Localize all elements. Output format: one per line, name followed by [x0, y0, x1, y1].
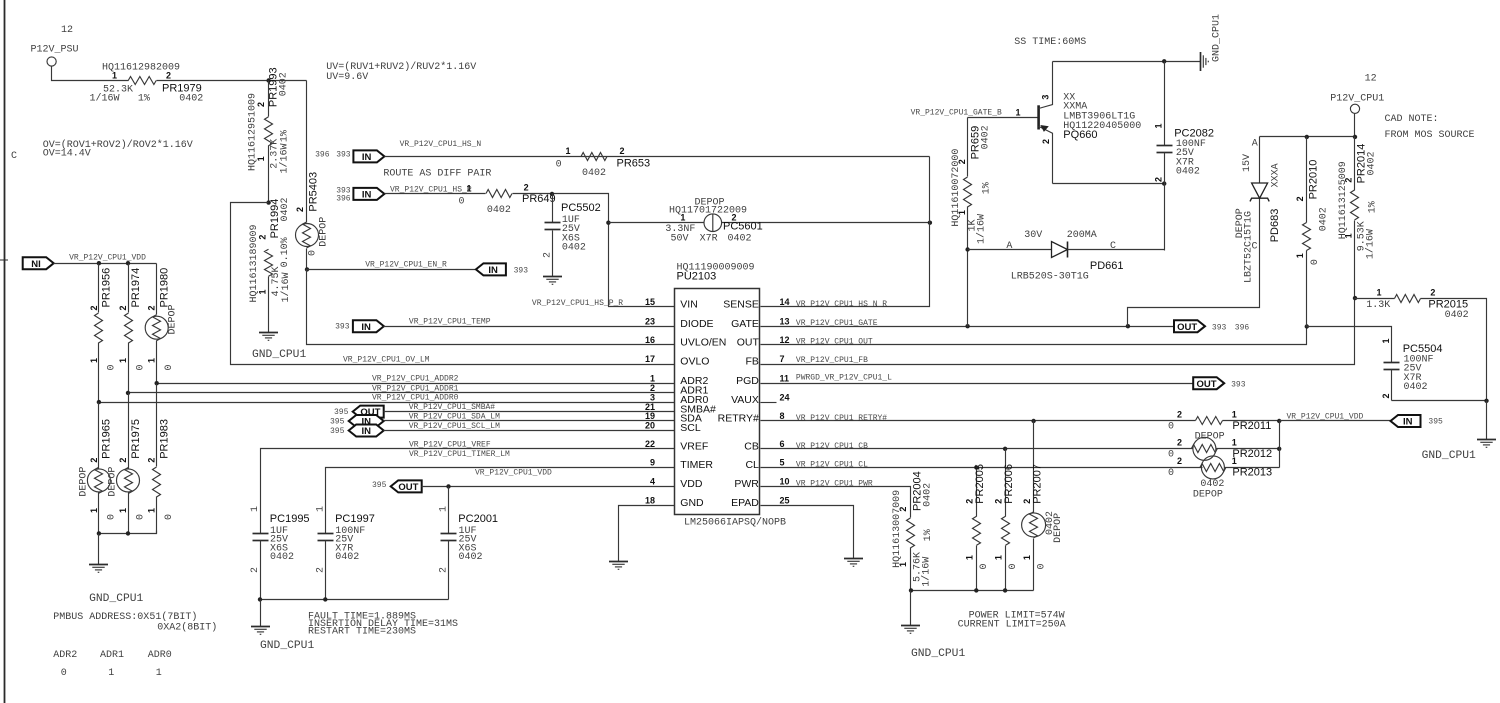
svg-text:1: 1: [439, 506, 450, 512]
svg-text:1/16W: 1/16W: [90, 92, 120, 104]
resistor PR659: [951, 118, 992, 250]
node FB/PR2014/PR2015 junction: [1353, 296, 1357, 300]
svg-text:VR_P12V_CPU1_OV_LM: VR_P12V_CPU1_OV_LM: [343, 356, 430, 365]
svg-text:9: 9: [650, 458, 655, 468]
wire GATE_B base wire: [911, 107, 1038, 117]
svg-text:396: 396: [1235, 324, 1250, 333]
resistor PR2004: [892, 471, 934, 590]
svg-text:1: 1: [89, 508, 99, 513]
svg-text:RESTART TIME=230MS: RESTART TIME=230MS: [308, 627, 416, 638]
svg-text:0: 0: [106, 514, 117, 520]
svg-text:GND_CPU1: GND_CPU1: [911, 648, 965, 660]
svg-text:DIODE: DIODE: [680, 318, 713, 330]
svg-text:1: 1: [1343, 233, 1353, 238]
svg-text:1: 1: [118, 358, 128, 363]
svg-text:PR1974: PR1974: [130, 268, 142, 308]
svg-text:4: 4: [650, 477, 655, 487]
svg-text:14: 14: [780, 297, 790, 307]
svg-text:DEPOP: DEPOP: [1193, 490, 1223, 501]
svg-text:VR_P12V_CPU1_GATE: VR_P12V_CPU1_GATE: [796, 319, 878, 328]
ground GND_CPU1 top right (rotated): [1201, 14, 1223, 71]
svg-text:1: 1: [256, 156, 266, 161]
svg-text:0: 0: [556, 160, 562, 171]
svg-text:XXXA: XXXA: [1270, 163, 1281, 187]
svg-text:396: 396: [336, 194, 351, 203]
svg-text:1: 1: [1232, 456, 1237, 466]
svg-text:PC5502: PC5502: [561, 202, 601, 214]
wire HS_P: [385, 183, 486, 207]
wire PC2001 riser: [448, 487, 450, 534]
svg-text:1: 1: [108, 668, 114, 679]
resistor PR653: [556, 146, 651, 179]
svg-text:HQ11613125009: HQ11613125009: [1338, 161, 1349, 239]
svg-text:PR2006: PR2006: [1003, 464, 1015, 504]
wire P12V_CPU1 rail: [1354, 114, 1356, 137]
svg-text:ADR1: ADR1: [100, 650, 124, 661]
svg-text:OUT: OUT: [737, 337, 760, 349]
svg-text:1: 1: [89, 358, 99, 363]
node P12V_CPU1 terminal: [1330, 74, 1384, 114]
svg-text:1: 1: [118, 508, 128, 513]
svg-text:2: 2: [89, 305, 99, 310]
svg-text:2: 2: [256, 102, 266, 107]
wire VDD to IN port: [1280, 412, 1391, 421]
wire PR rail bottom: [911, 590, 1034, 592]
svg-text:20: 20: [645, 421, 655, 431]
svg-text:PU2103: PU2103: [677, 271, 717, 283]
svg-text:2: 2: [439, 567, 450, 573]
svg-text:6: 6: [780, 439, 785, 449]
wire HS_P to VIN: [513, 194, 675, 307]
svg-text:1: 1: [147, 358, 157, 363]
wire ADR1 net: [129, 392, 675, 394]
wire SENSE riser: [761, 157, 930, 307]
svg-text:VR_P12V_CPU1_HS_P_R: VR_P12V_CPU1_HS_P_R: [532, 299, 623, 308]
svg-text:23: 23: [645, 316, 655, 326]
svg-text:0402: 0402: [459, 552, 483, 563]
text ADR table: [53, 650, 171, 679]
svg-text:395: 395: [372, 481, 387, 490]
svg-text:DEPOP: DEPOP: [319, 217, 330, 247]
node PC5504/PR2015 junction: [1484, 399, 1488, 403]
svg-text:2: 2: [1430, 288, 1435, 298]
svg-text:2: 2: [250, 567, 261, 573]
svg-text:VR_P12V_CPU1_OUT: VR_P12V_CPU1_OUT: [796, 337, 873, 346]
svg-text:VDD: VDD: [680, 478, 703, 490]
svg-text:PC2082: PC2082: [1174, 128, 1214, 140]
svg-text:0: 0: [61, 668, 67, 679]
svg-text:OV=14.4V: OV=14.4V: [43, 149, 91, 160]
text timing notes: [308, 612, 458, 638]
svg-text:2: 2: [965, 499, 975, 504]
svg-text:VR_P12V_CPU1_CB: VR_P12V_CPU1_CB: [796, 442, 868, 451]
svg-text:IN: IN: [361, 426, 371, 437]
svg-text:16: 16: [645, 335, 655, 345]
svg-text:1: 1: [566, 146, 571, 156]
svg-text:DEPOP: DEPOP: [168, 304, 179, 334]
svg-text:A: A: [1252, 139, 1258, 150]
svg-text:0402: 0402: [1318, 207, 1329, 231]
port IN (SDA): [330, 415, 384, 428]
node CB/PR2006 junction: [1003, 447, 1007, 451]
svg-text:PC5601: PC5601: [723, 221, 763, 233]
svg-text:GND_CPU1: GND_CPU1: [1422, 450, 1476, 462]
svg-text:GATE: GATE: [731, 318, 759, 330]
node PR659/PD661 junction: [965, 247, 969, 251]
svg-text:0: 0: [164, 364, 175, 370]
svg-text:1: 1: [1232, 437, 1237, 447]
svg-text:1: 1: [650, 373, 655, 383]
svg-text:GND_CPU1: GND_CPU1: [89, 593, 143, 605]
svg-text:ROUTE AS DIFF PAIR: ROUTE AS DIFF PAIR: [383, 169, 491, 180]
port IN (VDD right): [1391, 415, 1444, 428]
svg-text:VR_P12V_CPU1_TEMP: VR_P12V_CPU1_TEMP: [409, 318, 491, 327]
svg-text:0: 0: [308, 250, 319, 256]
resistor PR2007 (DEPOP): [1022, 421, 1064, 591]
svg-text:30V: 30V: [1024, 230, 1042, 241]
svg-text:VR_P12V_CPU1_SDA_LM: VR_P12V_CPU1_SDA_LM: [409, 413, 500, 422]
resistor PR2005: [965, 464, 991, 590]
wire VREF net: [261, 440, 675, 533]
svg-text:393: 393: [514, 267, 529, 276]
port IN (SCL): [330, 425, 384, 438]
svg-text:SENSE: SENSE: [723, 299, 759, 311]
svg-text:PC5504: PC5504: [1403, 343, 1443, 355]
svg-text:PR1965: PR1965: [101, 419, 113, 459]
svg-text:1: 1: [1381, 338, 1391, 343]
svg-text:0402: 0402: [1367, 151, 1378, 175]
svg-text:RETRY#: RETRY#: [718, 413, 759, 425]
svg-text:OUT: OUT: [1177, 322, 1197, 333]
svg-text:1/16W: 1/16W: [1365, 229, 1377, 259]
svg-text:ADR2: ADR2: [53, 650, 77, 661]
svg-text:CAD NOTE:: CAD NOTE:: [1385, 114, 1439, 125]
svg-text:0: 0: [164, 514, 175, 520]
svg-text:2: 2: [1295, 196, 1305, 201]
port NI: [23, 254, 146, 270]
ground GND_CPU1 caps: [251, 600, 314, 653]
svg-text:395: 395: [334, 408, 349, 417]
svg-text:11: 11: [780, 373, 790, 383]
wire PR2011-13 common riser: [1279, 421, 1281, 468]
svg-text:PD661: PD661: [1090, 260, 1124, 272]
svg-text:0: 0: [1168, 422, 1174, 433]
wire HS_N: [385, 140, 930, 157]
svg-text:FB: FB: [745, 356, 758, 368]
svg-text:PR1983: PR1983: [159, 419, 171, 459]
svg-text:UV=9.6V: UV=9.6V: [326, 72, 368, 83]
svg-text:1/16W: 1/16W: [975, 214, 987, 244]
svg-text:1.3K: 1.3K: [1366, 300, 1390, 311]
svg-text:PR2005: PR2005: [974, 464, 986, 504]
svg-text:0402: 0402: [279, 72, 290, 96]
svg-text:VR_P12V_CPU1_VDD: VR_P12V_CPU1_VDD: [69, 254, 146, 263]
svg-text:VR_P12V_CPU1_FB: VR_P12V_CPU1_FB: [796, 356, 868, 365]
svg-text:2: 2: [89, 458, 99, 463]
port IN (HS_N): [315, 150, 384, 163]
svg-text:OVLO: OVLO: [680, 356, 709, 368]
svg-text:395: 395: [330, 417, 345, 426]
transistor Q: PQ660 PNP: [1039, 62, 1142, 184]
svg-text:VR_P12V_CPU1_HS_N: VR_P12V_CPU1_HS_N: [400, 140, 482, 149]
svg-text:VAUX: VAUX: [731, 394, 759, 406]
wire OUT to PC5504: [1307, 327, 1392, 363]
IC pin numbers right: [780, 297, 790, 505]
svg-text:IN: IN: [488, 265, 498, 276]
ground under PC5502: [543, 276, 562, 278]
port OUT (PGD): [1193, 377, 1246, 390]
svg-text:PC1995: PC1995: [270, 513, 310, 525]
svg-text:2: 2: [1041, 139, 1051, 144]
svg-text:8: 8: [780, 411, 785, 421]
svg-text:7: 7: [780, 354, 785, 364]
text PMBUS address: [53, 611, 217, 634]
node GATE/PR659 junction: [965, 324, 969, 328]
capacitor PC5504: [1381, 338, 1442, 400]
node HS_N / SENSE junction: [928, 221, 932, 225]
svg-text:SCL: SCL: [680, 422, 701, 434]
svg-text:VR_P12V_CPU1_VDD: VR_P12V_CPU1_VDD: [1287, 412, 1364, 421]
svg-text:0: 0: [136, 364, 147, 370]
ground GND_CPU1 right: [1422, 401, 1496, 463]
wire CL net: [761, 461, 1203, 470]
svg-text:PC2001: PC2001: [458, 513, 498, 525]
svg-text:25: 25: [780, 496, 790, 506]
svg-text:395: 395: [330, 427, 345, 436]
svg-text:200MA: 200MA: [1067, 230, 1097, 241]
svg-text:HQ11613007009: HQ11613007009: [892, 490, 903, 568]
svg-text:VIN: VIN: [680, 299, 698, 311]
svg-text:VR_P12V_CPU1_SCL_LM: VR_P12V_CPU1_SCL_LM: [409, 422, 500, 431]
svg-text:0402: 0402: [582, 168, 606, 179]
svg-text:2: 2: [1022, 499, 1032, 504]
svg-text:0402: 0402: [562, 243, 586, 254]
wire GND pin 18 to ground: [609, 506, 675, 570]
text OV formula: [43, 139, 193, 160]
wire SCL: [384, 422, 675, 431]
svg-text:PR1975: PR1975: [130, 419, 142, 459]
text CAD NOTE: [1385, 114, 1475, 141]
svg-text:3: 3: [650, 392, 655, 402]
resistor PR2012 (DEPOP): [1168, 432, 1280, 461]
svg-text:VR_P12V_CPU1_ADDR0: VR_P12V_CPU1_ADDR0: [372, 394, 459, 403]
svg-text:NI: NI: [31, 259, 41, 270]
svg-text:CL: CL: [745, 459, 759, 471]
svg-text:PGD: PGD: [736, 375, 759, 387]
svg-text:15V: 15V: [1242, 154, 1253, 172]
svg-text:2: 2: [118, 305, 128, 310]
resistor PR1974: [118, 264, 147, 393]
node GATE/PD683 junction: [1126, 324, 1130, 328]
svg-text:P12V_CPU1: P12V_CPU1: [1330, 94, 1384, 105]
node OUT/PR2010/PC5504 junction: [1305, 324, 1309, 328]
node PR2012/VDD junction: [1277, 447, 1281, 451]
svg-text:1: 1: [680, 213, 685, 223]
svg-text:VR_P12V_CPU1_GATE_B: VR_P12V_CPU1_GATE_B: [911, 109, 1002, 118]
node divider mid junction: [266, 200, 270, 204]
resistor PR1965: [78, 403, 117, 534]
svg-text:CB: CB: [744, 441, 759, 453]
wire GATE net: [761, 319, 1175, 328]
svg-text:0: 0: [1310, 259, 1321, 265]
svg-text:2: 2: [315, 567, 326, 573]
svg-text:PR2010: PR2010: [1307, 160, 1319, 200]
port OUT (GATE): [1174, 320, 1249, 333]
svg-text:50V: 50V: [671, 233, 689, 244]
svg-text:PR1956: PR1956: [101, 268, 113, 308]
wire TEMP net to DIODE pin: [335, 318, 674, 333]
node PC5502 junction: [550, 192, 554, 196]
svg-text:OUT: OUT: [1196, 379, 1216, 390]
svg-text:0: 0: [459, 197, 465, 208]
svg-text:0402: 0402: [335, 552, 359, 563]
capacitor PC1995: [250, 506, 310, 600]
svg-text:1: 1: [147, 508, 157, 513]
svg-text:PC1997: PC1997: [335, 513, 375, 525]
svg-text:DEPOP: DEPOP: [1195, 432, 1225, 443]
svg-text:0402: 0402: [923, 483, 934, 507]
svg-text:1: 1: [1154, 123, 1164, 128]
svg-text:2: 2: [1177, 410, 1182, 420]
svg-text:1: 1: [156, 668, 162, 679]
resistor PR2015: [1355, 288, 1487, 401]
svg-text:P12V_PSU: P12V_PSU: [31, 45, 79, 56]
node EN_R junction: [305, 267, 309, 271]
wire SMBA#: [384, 403, 675, 412]
svg-text:TIMER: TIMER: [680, 459, 713, 471]
svg-text:VR_P12V_CPU1_ADDR2: VR_P12V_CPU1_ADDR2: [372, 375, 459, 384]
svg-text:VR_P12V_CPU1_CL: VR_P12V_CPU1_CL: [796, 461, 868, 470]
op-amp U1: hot-swap controller PU2103 box: [675, 263, 787, 529]
svg-text:DEPOP: DEPOP: [108, 467, 119, 497]
svg-text:393: 393: [1231, 380, 1246, 389]
wire OUT net: [761, 327, 1307, 347]
svg-text:0: 0: [1168, 468, 1174, 479]
svg-text:VR_P12V_CPU1_PWR: VR_P12V_CPU1_PWR: [796, 480, 873, 489]
wire transistor top rail to GND: [1053, 61, 1201, 63]
svg-text:5: 5: [780, 458, 785, 468]
resistor PR2014: [1338, 137, 1378, 299]
svg-text:PR653: PR653: [617, 157, 651, 169]
svg-text:1: 1: [315, 506, 326, 512]
svg-text:1/16W: 1/16W: [279, 143, 291, 173]
port OUT (SMBA#): [334, 406, 384, 419]
svg-text:0: 0: [1168, 449, 1174, 460]
svg-text:PMBUS ADDRESS:0X51(7BIT): PMBUS ADDRESS:0X51(7BIT): [53, 611, 197, 623]
svg-text:17: 17: [645, 354, 655, 364]
resistor PR2013 (DEPOP): [1168, 456, 1280, 501]
resistor PR5403 (DEPOP): [295, 81, 330, 270]
svg-text:VR_P12V_CPU1_EN_R: VR_P12V_CPU1_EN_R: [365, 261, 447, 270]
svg-text:0402: 0402: [179, 93, 203, 104]
svg-text:393: 393: [1212, 324, 1227, 333]
svg-text:IN: IN: [362, 152, 372, 163]
svg-text:DEPOP: DEPOP: [78, 467, 89, 497]
svg-text:0: 0: [1008, 563, 1019, 569]
svg-text:PQ660: PQ660: [1063, 129, 1097, 141]
resistor PR1993: [248, 67, 291, 202]
svg-text:PR2011: PR2011: [1232, 420, 1271, 432]
port OUT (VDD): [372, 480, 422, 493]
diode PD683 zener (DEPOP): [1235, 137, 1281, 284]
svg-text:IN: IN: [1403, 417, 1413, 428]
svg-text:VR_P12V_CPU1_VDD: VR_P12V_CPU1_VDD: [475, 469, 552, 478]
IC pin numbers left: [645, 297, 655, 505]
svg-text:0402: 0402: [728, 233, 752, 244]
wire VDD rail to resistors: [54, 263, 157, 265]
resistor PR2006: [993, 449, 1019, 591]
capacitor PC1997: [315, 506, 375, 600]
svg-text:DEPOP: DEPOP: [1053, 513, 1064, 543]
svg-text:1/16W: 1/16W: [280, 272, 292, 302]
wire EPAD to ground: [761, 506, 864, 567]
svg-text:0: 0: [106, 364, 117, 370]
svg-text:PR5403: PR5403: [308, 172, 320, 212]
svg-text:1: 1: [467, 183, 472, 193]
wire transistor bottom rail: [1053, 183, 1165, 185]
wire CB net: [761, 442, 1194, 451]
svg-text:VR_P12V_CPU1_SMBA#: VR_P12V_CPU1_SMBA#: [409, 403, 496, 412]
node P12V_PSU terminal: [31, 25, 79, 66]
svg-text:0402: 0402: [1404, 382, 1428, 393]
svg-text:1%: 1%: [138, 93, 150, 104]
svg-text:C: C: [11, 151, 17, 162]
svg-text:1: 1: [957, 210, 967, 215]
svg-text:2: 2: [166, 71, 171, 81]
svg-text:0402: 0402: [980, 125, 991, 149]
svg-text:ADR0: ADR0: [148, 650, 172, 661]
svg-text:1: 1: [1016, 107, 1021, 117]
svg-text:10: 10: [780, 477, 790, 487]
wire ADR2 net: [157, 383, 675, 385]
svg-text:15: 15: [645, 297, 655, 307]
svg-text:1: 1: [1295, 253, 1305, 258]
capacitor PC2001: [439, 506, 499, 600]
capacitor PC5502: [543, 194, 601, 277]
svg-text:PWR: PWR: [734, 478, 759, 490]
svg-text:1: 1: [965, 555, 975, 560]
svg-text:2: 2: [118, 458, 128, 463]
svg-text:C: C: [1252, 242, 1258, 253]
svg-text:IN: IN: [362, 190, 372, 201]
node RETRY#/PR2007 junction: [1031, 419, 1035, 423]
svg-text:12: 12: [780, 335, 790, 345]
svg-text:0.10%: 0.10%: [280, 237, 291, 267]
resistor PR2011: [1168, 410, 1280, 433]
svg-text:0XA2(8BIT): 0XA2(8BIT): [157, 622, 217, 634]
wire PC5504 bottom rail: [1392, 400, 1487, 402]
svg-text:1: 1: [250, 506, 261, 512]
svg-text:13: 13: [780, 316, 790, 326]
svg-text:PR2007: PR2007: [1031, 464, 1043, 504]
svg-text:2: 2: [957, 159, 967, 164]
resistor PR1979: [90, 63, 204, 105]
svg-text:VR_P12V_CPU1_VREF: VR_P12V_CPU1_VREF: [409, 440, 491, 449]
svg-text:LM25066IAPSQ/NOPB: LM25066IAPSQ/NOPB: [684, 517, 786, 529]
svg-text:2: 2: [147, 458, 157, 463]
svg-text:GND_CPU1: GND_CPU1: [260, 640, 314, 652]
wire SDA: [384, 413, 675, 422]
svg-text:PR2012: PR2012: [1232, 448, 1272, 460]
wire TIMER net: [326, 450, 675, 533]
svg-text:1%: 1%: [280, 130, 291, 142]
ground GND_CPU1 under divider: [252, 333, 306, 362]
svg-text:OUT: OUT: [398, 482, 418, 493]
wire cap bottom rail: [261, 599, 449, 601]
node junction top of divider: [266, 78, 270, 82]
svg-text:IN: IN: [361, 322, 371, 333]
svg-text:1%: 1%: [1367, 201, 1378, 213]
